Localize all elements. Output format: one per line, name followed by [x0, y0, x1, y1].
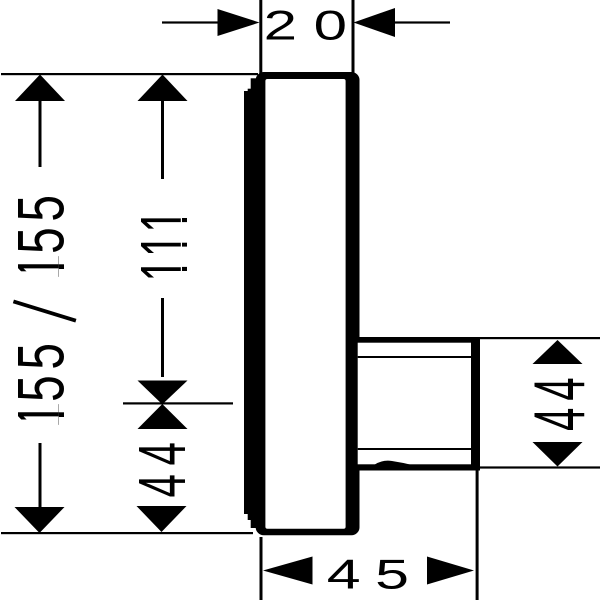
- dimension arrow 20 right: [354, 8, 396, 37]
- dimension line 20 right tail: [391, 21, 450, 23]
- valve face: [358, 343, 471, 465]
- extension line 20 left vertical: [259, 0, 262, 76]
- escutcheon plate body (side view): [256, 72, 360, 535]
- valve ring line bottom: [358, 448, 471, 450]
- plate flange step 1: [244, 91, 248, 514]
- valve ring line top: [358, 356, 471, 358]
- glyph cleanup: remove foot serifs of digit 1 (target font has none): [181, 211, 189, 231]
- extension line bottom left: [1, 532, 253, 534]
- dimension line 155 lower segment: [39, 443, 42, 509]
- extension line 44 right bottom: [478, 466, 600, 468]
- dimension arrow 45 left: [263, 557, 313, 585]
- dimension arrow 111 bottom (butterfly top): [138, 381, 188, 405]
- dimension arrow 44 middle top (butterfly bottom): [138, 404, 188, 429]
- dimension arrow 44 middle bottom: [137, 506, 187, 532]
- svg-text:155: 155: [5, 337, 78, 428]
- extension line 20 right vertical: [352, 0, 355, 73]
- valve bottom squiggle: [374, 461, 412, 465]
- dimension line 111 upper segment: [161, 100, 164, 179]
- dimension arrow 44 right bottom: [533, 442, 583, 467]
- dimension arrow 20 left: [218, 9, 260, 36]
- dimension line 155 upper segment: [39, 100, 42, 167]
- dimension line 111 lower segment: [161, 298, 164, 377]
- svg-text:155: 155: [5, 189, 78, 280]
- svg-text:4 4: 4 4: [125, 443, 199, 498]
- svg-text:111: 111: [126, 208, 202, 281]
- valve body: [356, 337, 480, 471]
- dimension arrow 111 top: [138, 75, 188, 102]
- extension line 45 right vertical: [476, 339, 479, 600]
- plate front face: [265, 79, 345, 529]
- tick line at 111/44 junction: [123, 402, 233, 404]
- dimension arrow 155 bottom: [15, 507, 65, 533]
- dimension label slash: [13, 301, 76, 320]
- extension line 44 right top: [478, 337, 600, 339]
- dimension line 20 left tail: [162, 21, 222, 23]
- svg-text:4 5: 4 5: [327, 552, 408, 599]
- plate flange step 2: [248, 89, 251, 520]
- dimension arrow 45 right: [427, 557, 474, 585]
- extension line top left: [1, 73, 258, 75]
- svg-text:4 4: 4 4: [518, 378, 600, 431]
- extension line 45 left vertical: [260, 537, 263, 600]
- dimension arrow 44 right top: [533, 340, 583, 364]
- svg-text:2 0: 2 0: [264, 1, 347, 48]
- plate flange step 3: [251, 78, 256, 528]
- dimension arrow 155 top: [15, 75, 65, 102]
